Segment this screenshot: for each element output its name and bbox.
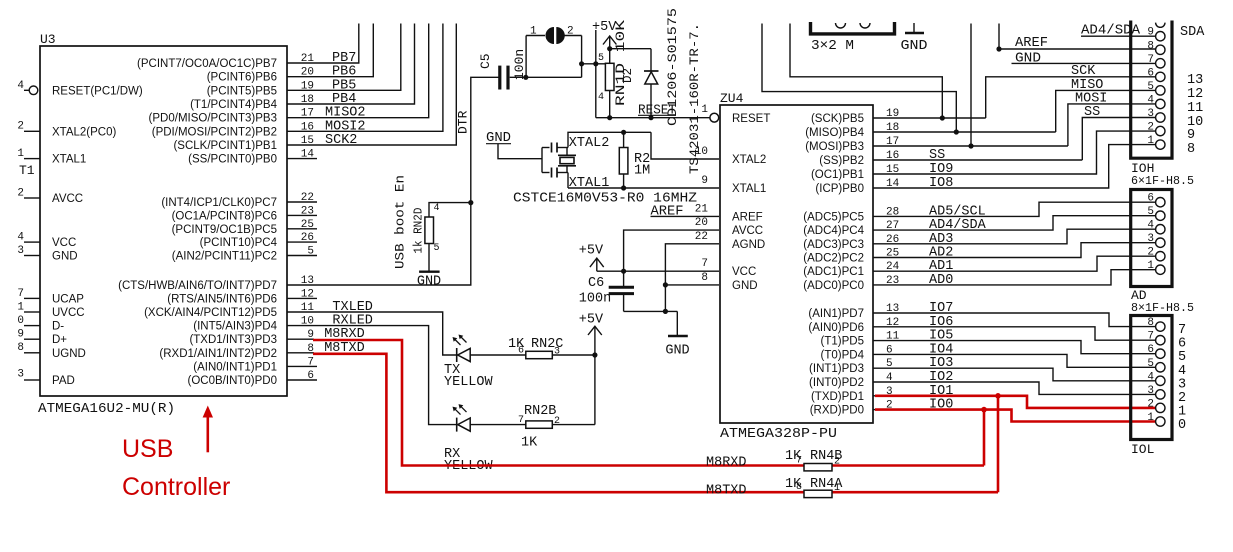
- svg-text:9: 9: [17, 329, 24, 341]
- wire U3 pin 16 to top header: [287, 24, 443, 132]
- IC U3 ATMEGA16U2-MU(R) body: [40, 46, 287, 396]
- svg-text:20: 20: [695, 217, 708, 229]
- svg-text:8: 8: [796, 482, 802, 493]
- svg-text:1: 1: [834, 483, 840, 494]
- svg-text:3: 3: [17, 369, 24, 381]
- LED TX YELLOW: [444, 335, 526, 391]
- wire IO6 net: ZU4 pin 12 to IOL connector: [873, 327, 1156, 340]
- svg-text:4: 4: [17, 232, 24, 244]
- svg-text:5: 5: [434, 243, 440, 254]
- svg-text:(T1)PD5: (T1)PD5: [821, 336, 864, 348]
- svg-text:(SCLK/PCINT1)PB1: (SCLK/PCINT1)PB1: [173, 140, 277, 152]
- svg-text:+5V: +5V: [579, 244, 604, 259]
- svg-text:GND: GND: [417, 274, 441, 289]
- IOH pin circles: [1156, 32, 1165, 150]
- red annotation arrow to U3: [207, 415, 210, 452]
- svg-text:GND: GND: [901, 39, 928, 54]
- svg-text:100n: 100n: [579, 292, 611, 307]
- svg-text:3: 3: [1147, 108, 1154, 120]
- svg-text:6: 6: [1147, 193, 1154, 205]
- IOL pin circles: [1156, 322, 1165, 426]
- wire MOSI: ZU4 pin17 to IOH pin4: [873, 104, 1156, 146]
- svg-text:(MOSI)PB3: (MOSI)PB3: [805, 141, 864, 153]
- IOH pin numbers: [1147, 27, 1154, 147]
- wire C6 bottom to ground: [624, 309, 678, 314]
- svg-text:2: 2: [554, 416, 560, 427]
- svg-text:2: 2: [567, 26, 574, 38]
- label AREF at IOH: [1015, 36, 1048, 51]
- wire DTR net: U3 pin13 to C5, node DTR: [287, 77, 500, 285]
- svg-text:(T1/PCINT4)PB4: (T1/PCINT4)PB4: [190, 99, 278, 111]
- ZU4 RESET pin bubble: [710, 113, 719, 122]
- svg-text:6×1F-H8.5: 6×1F-H8.5: [1131, 174, 1194, 188]
- svg-text:(CTS/HWB/AIN6/TO/INT7)PD7: (CTS/HWB/AIN6/TO/INT7)PD7: [118, 280, 277, 292]
- wire ICSP to ZU4 SCK pin19: [790, 24, 945, 121]
- connector 3x2 M ICSP header (cut off): [811, 22, 895, 54]
- svg-text:(ADC4)PC4: (ADC4)PC4: [803, 225, 864, 237]
- svg-text:U3: U3: [40, 32, 56, 47]
- svg-text:IO6: IO6: [929, 315, 953, 330]
- wire RXLED: U3 pin10 to RX LED: [287, 326, 457, 425]
- svg-text:RESET: RESET: [638, 104, 676, 119]
- power +5V for LED resistors: [579, 313, 604, 425]
- svg-text:6: 6: [518, 346, 524, 357]
- svg-text:22: 22: [695, 231, 708, 243]
- svg-text:C6: C6: [588, 276, 604, 291]
- svg-text:2: 2: [1147, 398, 1154, 410]
- wire ICSP to ZU4 MISO pin18: [762, 24, 959, 135]
- svg-text:7: 7: [518, 415, 524, 426]
- svg-text:8: 8: [1147, 317, 1154, 329]
- svg-text:8×1F-H8.5: 8×1F-H8.5: [1131, 301, 1194, 315]
- svg-text:5: 5: [598, 53, 604, 64]
- svg-text:(TXD1/INT3)PD3: (TXD1/INT3)PD3: [189, 334, 277, 346]
- svg-text:4: 4: [1147, 94, 1154, 106]
- svg-text:RN1D 10K: RN1D 10K: [613, 20, 628, 106]
- resistor RN2D (USB boot En pulldown): [425, 203, 471, 272]
- svg-text:(PCINT6)PB6: (PCINT6)PB6: [207, 72, 277, 84]
- U3 pins 22,23,25,26,5 stubs: [287, 202, 317, 256]
- svg-text:IO2: IO2: [929, 370, 953, 385]
- ground at resonator: [486, 131, 542, 159]
- svg-text:(AIN1)PD7: (AIN1)PD7: [808, 308, 864, 320]
- svg-text:8: 8: [1147, 40, 1154, 52]
- svg-text:(ADC0)PC0: (ADC0)PC0: [803, 280, 864, 292]
- wire AD0 net: ZU4 pin 23 to AD connector: [873, 270, 1156, 285]
- power +5V near RN1D: [592, 20, 617, 118]
- U3 RESET pin inversion bubble: [29, 86, 38, 95]
- svg-text:11: 11: [1187, 101, 1203, 116]
- svg-text:(PCINT7/OC0A/OC1C)PB7: (PCINT7/OC0A/OC1C)PB7: [137, 58, 277, 70]
- capacitor C5 100n: [500, 66, 526, 90]
- svg-text:7: 7: [796, 456, 802, 467]
- wire AD4 net: ZU4 pin 27 to AD connector: [873, 216, 1156, 230]
- svg-text:13: 13: [1187, 73, 1203, 88]
- wire AD3 net: ZU4 pin 26 to AD connector: [873, 229, 1156, 244]
- svg-text:0: 0: [17, 315, 24, 327]
- svg-text:7: 7: [1147, 54, 1154, 66]
- svg-text:2: 2: [17, 121, 24, 133]
- svg-text:AREF: AREF: [1015, 36, 1048, 51]
- IOL pin numbers: [1147, 317, 1154, 424]
- svg-text:(INT1)PD3: (INT1)PD3: [809, 363, 864, 375]
- wire U3 pin 20 to top header: [287, 24, 373, 77]
- svg-text:SS: SS: [1084, 105, 1100, 120]
- svg-text:5: 5: [1147, 81, 1154, 93]
- svg-text:4: 4: [1147, 371, 1154, 383]
- wire U3 pin 19 to top header: [287, 24, 401, 91]
- svg-text:IO9: IO9: [929, 162, 953, 177]
- svg-text:3: 3: [17, 245, 24, 257]
- svg-text:0: 0: [1178, 418, 1186, 433]
- IOL external pin labels 7-0: [1178, 323, 1186, 433]
- svg-text:12: 12: [1187, 87, 1203, 102]
- svg-text:VCC: VCC: [52, 237, 76, 249]
- svg-text:(ADC3)PC3: (ADC3)PC3: [803, 239, 864, 251]
- svg-text:(ADC1)PC1: (ADC1)PC1: [803, 266, 864, 278]
- svg-text:GND: GND: [1015, 52, 1041, 67]
- wire ZU4 AGND pin22: [663, 244, 719, 312]
- ZU4 right pin labels: [803, 113, 864, 417]
- svg-text:3×2 M: 3×2 M: [811, 39, 854, 54]
- svg-text:IO4: IO4: [929, 342, 953, 357]
- svg-text:UCAP: UCAP: [52, 293, 84, 305]
- svg-text:USB: USB: [122, 435, 173, 463]
- svg-text:RN2B: RN2B: [524, 404, 556, 419]
- svg-text:(PDI/MOSI/PCINT2)PB2: (PDI/MOSI/PCINT2)PB2: [152, 126, 277, 138]
- svg-text:3: 3: [1147, 233, 1154, 245]
- svg-text:5: 5: [1147, 358, 1154, 370]
- U3 pins 12,7,6 stubs: [287, 298, 317, 380]
- resistor RN2C 1K: [508, 337, 595, 359]
- svg-text:(INT4/ICP1/CLK0)PC7: (INT4/ICP1/CLK0)PC7: [161, 197, 277, 209]
- svg-text:SDA: SDA: [1180, 25, 1205, 40]
- wire M8TXD red: U3 pin8 to RN4A: [287, 353, 998, 492]
- wire red M8RXD riser to IO0: [981, 407, 987, 466]
- svg-text:XTAL2: XTAL2: [732, 154, 766, 166]
- svg-text:21: 21: [695, 203, 709, 215]
- svg-text:IO7: IO7: [929, 301, 953, 316]
- svg-text:(MISO)PB4: (MISO)PB4: [805, 127, 864, 139]
- svg-text:ZU4: ZU4: [720, 91, 744, 106]
- svg-text:3: 3: [1147, 385, 1154, 397]
- svg-text:(SS)PB2: (SS)PB2: [819, 155, 864, 167]
- svg-text:2: 2: [1147, 122, 1154, 134]
- svg-text:6: 6: [1147, 344, 1154, 356]
- resistor RN4A 1K: [785, 477, 843, 498]
- svg-text:XTAL1: XTAL1: [732, 183, 766, 195]
- svg-text:9: 9: [1187, 128, 1195, 143]
- svg-text:1: 1: [1147, 412, 1154, 424]
- wire AREF to IOH pin8: [996, 24, 1155, 52]
- svg-text:SCK2: SCK2: [325, 133, 357, 148]
- svg-text:9: 9: [701, 175, 708, 187]
- svg-text:3: 3: [554, 347, 560, 358]
- svg-text:4: 4: [598, 92, 604, 103]
- diode D2: [610, 49, 659, 121]
- svg-text:7: 7: [701, 258, 708, 270]
- svg-text:+5V: +5V: [579, 313, 604, 328]
- svg-text:(SS/PCINT0)PB0: (SS/PCINT0)PB0: [188, 154, 277, 166]
- ground near C6: [665, 311, 689, 358]
- U3 left pin labels: [52, 85, 143, 387]
- svg-text:XTAL1: XTAL1: [569, 176, 610, 191]
- connector IOH 6x1F-H8.5: [1131, 21, 1172, 159]
- ground near 3x2 header: [901, 23, 928, 54]
- label AD connector name: [1131, 288, 1194, 315]
- svg-text:GND: GND: [732, 280, 758, 292]
- svg-text:XTAL2(PC0): XTAL2(PC0): [52, 126, 117, 138]
- svg-text:(AIN2/PCINT11)PC2: (AIN2/PCINT11)PC2: [172, 251, 277, 263]
- ZU4 left pin numbers: [695, 104, 709, 284]
- wire AD1 net: ZU4 pin 24 to AD connector: [873, 256, 1156, 271]
- svg-text:T1: T1: [19, 163, 35, 178]
- resistor RN2B 1K: [518, 404, 595, 451]
- wire U3 pin 21 to top header: [287, 24, 359, 64]
- wire SS: ZU4 pin16 to IOH pin3: [873, 118, 1156, 161]
- svg-text:(OC1)PB1: (OC1)PB1: [811, 169, 864, 181]
- wire RESET net to ZU4 pin1: [596, 104, 710, 119]
- svg-text:4: 4: [17, 80, 24, 92]
- svg-text:7: 7: [17, 288, 24, 300]
- svg-text:2: 2: [834, 457, 840, 468]
- svg-text:6: 6: [1147, 67, 1154, 79]
- svg-text:5: 5: [1147, 206, 1154, 218]
- ZU4 left pin labels: [732, 113, 770, 292]
- wire IO8: ZU4 pin14 to IOH pin1: [873, 145, 1156, 188]
- wire IO3 net: ZU4 pin 5 to IOL connector: [873, 368, 1156, 381]
- svg-text:(XCK/AIN4/PCINT12)PD5: (XCK/AIN4/PCINT12)PD5: [144, 307, 277, 319]
- svg-text:SCK: SCK: [1071, 64, 1096, 79]
- svg-text:1: 1: [701, 104, 708, 116]
- svg-text:(RXD1/AIN1/INT2)PD2: (RXD1/AIN1/INT2)PD2: [159, 348, 277, 360]
- red annotation text USB Controller: [122, 435, 230, 501]
- U3 net labels PB7-SCK2: [325, 51, 366, 148]
- svg-text:(AIN0/INT1)PD1: (AIN0/INT1)PD1: [193, 361, 277, 373]
- wire IO7 net: ZU4 pin 13 to IOL connector: [873, 313, 1156, 327]
- wire AD2 net: ZU4 pin 25 to AD connector: [873, 243, 1156, 258]
- svg-text:M8TXD: M8TXD: [324, 341, 365, 356]
- svg-text:9: 9: [1147, 27, 1154, 39]
- svg-text:1M: 1M: [634, 164, 650, 179]
- svg-text:IO8: IO8: [929, 176, 953, 191]
- connector AD 8x1F-H8.5 body: [1131, 190, 1172, 287]
- wire U3 pin 17 to top header: [287, 24, 429, 118]
- svg-text:(OC0B/INT0)PD0: (OC0B/INT0)PD0: [188, 375, 277, 387]
- wire TXLED: U3 pin11 to TX LED: [287, 312, 457, 355]
- svg-text:1: 1: [530, 26, 537, 38]
- wire M8RXD red: U3 pin9 to RN4B: [287, 339, 984, 465]
- svg-text:D-: D-: [52, 321, 64, 333]
- svg-text:GND: GND: [52, 251, 78, 263]
- wire AD4/SDA to IOH pin9: [1081, 24, 1156, 39]
- svg-text:(OC1A/PCINT8)PC6: (OC1A/PCINT8)PC6: [172, 210, 277, 222]
- power +5V to ZU4 VCC: [579, 244, 719, 274]
- svg-text:10: 10: [695, 146, 708, 158]
- wire IO2 net: ZU4 pin 4 to IOL connector: [873, 382, 1156, 394]
- resistor RN4B 1K: [785, 449, 842, 471]
- svg-text:XTAL1: XTAL1: [52, 154, 86, 166]
- svg-text:GND: GND: [665, 344, 689, 359]
- wire red M8TXD riser to IO1: [995, 393, 1001, 492]
- svg-text:(PCINT5)PB5: (PCINT5)PB5: [207, 85, 277, 97]
- wire ICSP to ZU4 MOSI pin17: [968, 24, 973, 149]
- svg-text:2: 2: [17, 188, 24, 200]
- wire AD5 net: ZU4 pin 28 to AD connector: [873, 202, 1156, 216]
- AD pin numbers: [1147, 193, 1154, 273]
- svg-text:Controller: Controller: [122, 473, 230, 501]
- svg-text:(PD0/MISO/PCINT3)PB3: (PD0/MISO/PCINT3)PB3: [149, 113, 277, 125]
- ZU4 right net labels: [929, 148, 987, 385]
- wire IO0 red: ZU4 pin2 to IOL pin1: [873, 410, 1156, 422]
- svg-text:RESET(PC1/DW): RESET(PC1/DW): [52, 85, 143, 97]
- label IOH connector name: [1131, 161, 1194, 188]
- wire IO9: ZU4 pin15 to IOH pin2: [873, 131, 1156, 174]
- svg-text:M8RXD: M8RXD: [706, 456, 747, 471]
- U3 left pin stubs and cut pin numbers: [17, 80, 40, 381]
- svg-text:IO3: IO3: [929, 356, 953, 371]
- svg-text:1: 1: [1147, 260, 1154, 272]
- svg-text:1: 1: [1147, 135, 1154, 147]
- capacitor C6 100n: [579, 271, 634, 311]
- wire MISO: ZU4 pin18 to IOH pin5: [873, 90, 1156, 132]
- AD pin circles: [1156, 198, 1165, 275]
- svg-text:4: 4: [434, 203, 440, 214]
- LED RX YELLOW: [444, 404, 526, 474]
- svg-text:1k RN2D: 1k RN2D: [413, 208, 426, 254]
- wire node: C5 to polarized cap and +5V line: [523, 36, 605, 80]
- connector IOL 8x1F body: [1131, 316, 1172, 440]
- svg-text:(INT0)PD2: (INT0)PD2: [809, 377, 864, 389]
- ZU4 right pin numbers: [886, 108, 900, 412]
- svg-text:SS: SS: [929, 148, 945, 163]
- svg-text:UGND: UGND: [52, 348, 86, 360]
- svg-text:(ICP)PB0: (ICP)PB0: [815, 183, 864, 195]
- svg-text:1K: 1K: [521, 436, 538, 451]
- svg-text:(TXD)PD1: (TXD)PD1: [811, 391, 864, 403]
- svg-text:PAD: PAD: [52, 375, 75, 387]
- svg-text:VCC: VCC: [732, 266, 756, 278]
- svg-text:YELLOW: YELLOW: [444, 375, 494, 390]
- svg-text:AREF: AREF: [651, 204, 684, 219]
- IOH external pin labels 13-8: [1187, 73, 1203, 157]
- U3 pin 14 stub: [287, 158, 317, 160]
- svg-text:(RXD)PD0: (RXD)PD0: [810, 405, 864, 417]
- svg-text:(SCK)PB5: (SCK)PB5: [811, 113, 864, 125]
- wire XTAL1 net: [568, 173, 719, 191]
- svg-text:RESET: RESET: [732, 113, 770, 125]
- svg-text:(RTS/AIN5/INT6)PD6: (RTS/AIN5/INT6)PD6: [167, 293, 277, 305]
- wire U3 pin 18 to top header: [287, 24, 415, 105]
- resistor RN1D 10K (reset pullup): [598, 36, 616, 120]
- resonator CSTCE16M0V53-R0 (XT2): [542, 143, 576, 178]
- svg-text:AREF: AREF: [732, 211, 763, 223]
- svg-text:IOL: IOL: [1131, 442, 1154, 457]
- svg-text:8: 8: [17, 342, 24, 354]
- IC ZU4 ATMEGA328P-PU body: [720, 105, 873, 423]
- wire IO4 net: ZU4 pin 6 to IOL connector: [873, 354, 1156, 367]
- resistor R2 1M: [619, 132, 650, 188]
- svg-text:AVCC: AVCC: [732, 225, 763, 237]
- svg-text:C5: C5: [478, 53, 493, 69]
- svg-text:M8TXD: M8TXD: [706, 484, 747, 499]
- svg-text:(PCINT10)PC4: (PCINT10)PC4: [200, 237, 278, 249]
- svg-text:7: 7: [1147, 331, 1154, 343]
- wire GND to IOH pin7: [1012, 52, 1156, 67]
- svg-text:(PCINT9/OC1B)PC5: (PCINT9/OC1B)PC5: [172, 224, 277, 236]
- svg-text:AGND: AGND: [732, 239, 765, 251]
- svg-text:(INT5/AIN3)PD4: (INT5/AIN3)PD4: [193, 321, 277, 333]
- svg-text:1: 1: [17, 302, 24, 314]
- svg-text:8: 8: [701, 272, 708, 284]
- wire SCK: ZU4 pin19 to IOH pin6: [873, 77, 1156, 118]
- svg-text:4: 4: [1147, 220, 1154, 232]
- svg-text:XTAL2: XTAL2: [569, 136, 610, 151]
- svg-text:8: 8: [1187, 142, 1195, 157]
- svg-text:ATMEGA16U2-MU(R): ATMEGA16U2-MU(R): [38, 401, 175, 417]
- wire ZU4 GND pin8: [665, 284, 719, 286]
- svg-text:(AIN0)PD6: (AIN0)PD6: [808, 322, 864, 334]
- svg-text:AVCC: AVCC: [52, 193, 83, 205]
- wire IO1 red: ZU4 pin3 to IOL pin2: [873, 396, 1156, 408]
- svg-text:(T0)PD4: (T0)PD4: [821, 349, 865, 361]
- U3 right pin labels: [118, 58, 277, 387]
- svg-text:2: 2: [1147, 247, 1154, 259]
- svg-text:(ADC2)PC2: (ADC2)PC2: [803, 253, 864, 265]
- svg-text:1: 1: [17, 148, 24, 160]
- svg-text:IO5: IO5: [929, 329, 953, 344]
- svg-text:D2: D2: [621, 68, 635, 83]
- svg-text:(ADC5)PC5: (ADC5)PC5: [803, 211, 864, 223]
- wire XTAL2 net: [568, 130, 719, 159]
- wire ZU4 AVCC pin20: [624, 230, 719, 271]
- wire U3 pin 15 to top header: [287, 24, 456, 146]
- svg-text:ATMEGA328P-PU: ATMEGA328P-PU: [720, 426, 837, 442]
- wire IO5 net: ZU4 pin 11 to IOL connector: [873, 341, 1156, 354]
- svg-text:D+: D+: [52, 334, 67, 346]
- U3 right pin numbers: [301, 53, 315, 382]
- svg-text:USB boot En: USB boot En: [393, 175, 408, 269]
- wire AREF to ZU4 pin21: [651, 204, 720, 219]
- polarized capacitor (reset cap): [530, 26, 574, 45]
- svg-text:DTR: DTR: [456, 110, 471, 134]
- svg-text:UVCC: UVCC: [52, 307, 85, 319]
- svg-text:AD0: AD0: [929, 273, 953, 288]
- ground for RN2D: [417, 272, 441, 290]
